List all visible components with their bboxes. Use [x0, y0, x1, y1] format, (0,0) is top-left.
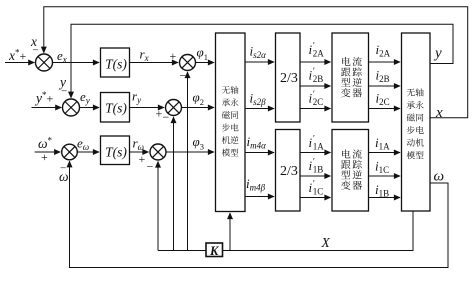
svg-text:x: x	[435, 105, 443, 121]
svg-text:−: −	[61, 86, 67, 98]
svg-text:X: X	[321, 235, 331, 250]
svg-text:+: +	[156, 107, 163, 121]
svg-text:−: −	[33, 45, 39, 57]
svg-text:ω: ω	[434, 169, 445, 185]
svg-text:−: −	[147, 160, 154, 174]
svg-text:−: −	[163, 110, 170, 124]
svg-text:ω: ω	[59, 169, 69, 184]
svg-text:T(s): T(s)	[105, 101, 127, 116]
svg-text:T(s): T(s)	[105, 57, 127, 72]
svg-text:2/3: 2/3	[280, 164, 298, 179]
svg-text:−: −	[180, 69, 187, 83]
svg-text:y: y	[433, 46, 442, 62]
svg-text:+: +	[41, 150, 48, 164]
svg-text:T(s): T(s)	[105, 145, 127, 160]
svg-text:2/3: 2/3	[280, 71, 298, 86]
svg-text:+: +	[170, 49, 177, 63]
svg-text:+: +	[139, 152, 146, 166]
